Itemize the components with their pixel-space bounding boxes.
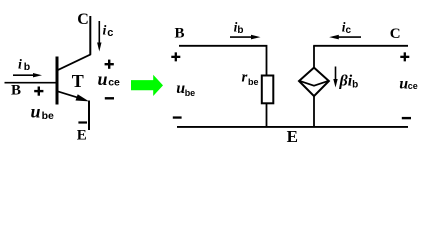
plus sign of u_ce (left figure) [105, 60, 114, 69]
minus sign of u_ce port (right figure) [402, 117, 411, 119]
svg-text:be: be [248, 77, 259, 87]
wire: emitter lead down to E [88, 101, 90, 131]
svg-text:ib: ib [234, 19, 244, 36]
svg-text:C: C [77, 11, 89, 28]
controlled current source diamond [299, 68, 329, 97]
svg-text:ce: ce [408, 81, 418, 91]
transistor Q1 base bar [56, 57, 59, 105]
transistor Q1 collector diagonal [58, 54, 91, 70]
current arrow i_c (right figure) [329, 35, 361, 40]
plus sign of u_be port (right figure) [171, 52, 180, 61]
minus sign of u_be near emitter (left figure) [78, 121, 87, 123]
current arrow i_b (right figure) [230, 35, 261, 40]
current arrow i_b (left figure) [13, 73, 42, 77]
wire: top lead of controlled source [313, 46, 315, 68]
svg-text:E: E [77, 128, 87, 144]
svg-text:T: T [72, 71, 84, 91]
svg-text:B: B [175, 26, 185, 42]
svg-text:ic: ic [103, 23, 114, 39]
current direction arrow of source [333, 67, 337, 88]
svg-text:u: u [98, 69, 108, 89]
wire: bottom rail E [177, 126, 408, 128]
svg-text:u: u [31, 101, 41, 121]
wire: r_be bottom lead [266, 103, 268, 127]
svg-text:ib: ib [18, 58, 30, 73]
svg-text:r: r [242, 70, 248, 86]
svg-text:ic: ic [342, 19, 352, 36]
current arrow i_c (left figure) [97, 21, 101, 52]
svg-text:B: B [11, 83, 21, 99]
svg-text:be: be [42, 110, 54, 122]
wire: top-left from B to r_be branch [179, 46, 267, 75]
transistor Q1 emitter diagonal with arrow [58, 91, 90, 101]
svg-text:be: be [185, 88, 196, 98]
wire: top-right from source to C [313, 45, 408, 47]
svg-text:ce: ce [108, 77, 120, 89]
minus sign of u_be port (right figure) [173, 116, 182, 118]
wire: bottom lead of controlled source [313, 96, 315, 127]
green arrow [131, 75, 163, 96]
wire: collector lead up to C [89, 16, 91, 55]
plus sign of u_be (left figure) [34, 87, 43, 96]
resistor r_be body [262, 76, 274, 104]
wire: base lead of T [5, 82, 57, 84]
svg-text:C: C [390, 26, 401, 42]
svg-text:E: E [287, 127, 298, 146]
svg-text:βib: βib [339, 73, 359, 91]
minus sign of u_ce (left figure) [105, 97, 114, 99]
plus sign of u_ce port (right figure) [400, 52, 409, 61]
